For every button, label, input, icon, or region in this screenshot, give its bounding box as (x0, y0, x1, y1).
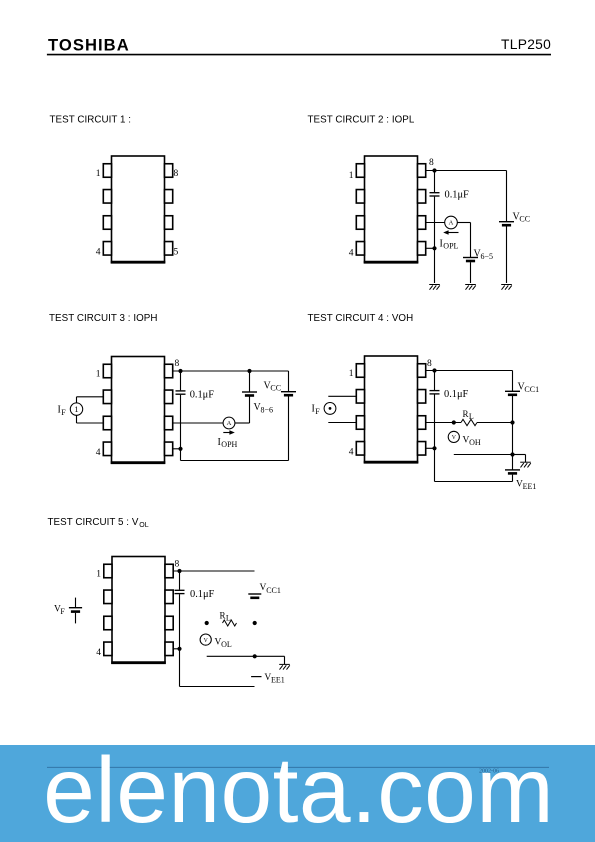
svg-text:EE1: EE1 (271, 675, 285, 684)
svg-text:5: 5 (174, 247, 179, 257)
svg-text:0.1μF: 0.1μF (190, 389, 215, 400)
svg-text:1: 1 (349, 369, 354, 379)
svg-text:0.1μF: 0.1μF (444, 389, 469, 400)
svg-text:L: L (469, 412, 474, 421)
svg-text:F: F (61, 408, 66, 417)
svg-text:OPH: OPH (221, 440, 237, 449)
svg-text:OH: OH (469, 438, 481, 447)
svg-text:8: 8 (427, 359, 432, 369)
svg-text:4: 4 (349, 447, 354, 457)
svg-text:4: 4 (96, 648, 101, 658)
svg-text:4: 4 (96, 448, 101, 458)
svg-text:OPL: OPL (443, 242, 458, 251)
svg-text:1: 1 (96, 169, 101, 179)
svg-text:CC1: CC1 (266, 586, 281, 595)
svg-text:R: R (220, 610, 226, 620)
svg-text:TEST CIRCUIT 4 : VOH: TEST CIRCUIT 4 : VOH (308, 313, 414, 324)
svg-text:8: 8 (175, 359, 180, 369)
svg-text:4: 4 (96, 247, 101, 257)
svg-text:OL: OL (221, 640, 232, 649)
svg-text:TEST CIRCUIT 3 : IOPH: TEST CIRCUIT 3 : IOPH (49, 313, 157, 324)
svg-text:CC: CC (519, 215, 530, 224)
svg-text:TEST CIRCUIT 5 : V: TEST CIRCUIT 5 : V (48, 517, 139, 528)
svg-text:1: 1 (349, 171, 354, 181)
svg-text:TOSHIBA: TOSHIBA (48, 36, 130, 55)
svg-text:CC: CC (270, 384, 281, 393)
svg-text:1: 1 (74, 404, 78, 414)
svg-text:4: 4 (349, 249, 354, 259)
svg-text:0.1μF: 0.1μF (445, 190, 470, 201)
svg-text:8: 8 (429, 158, 434, 168)
svg-text:1: 1 (96, 570, 101, 580)
svg-text:8: 8 (174, 169, 179, 179)
svg-text:V: V (204, 638, 209, 644)
svg-text:V: V (452, 435, 457, 441)
svg-text:TLP250: TLP250 (501, 37, 551, 52)
svg-text:A: A (449, 220, 454, 227)
svg-text:TEST CIRCUIT 1 :: TEST CIRCUIT 1 : (50, 115, 132, 126)
svg-text:TEST CIRCUIT 2 : IOPL: TEST CIRCUIT 2 : IOPL (308, 115, 415, 126)
svg-text:A: A (227, 420, 232, 427)
svg-text:1: 1 (96, 370, 101, 380)
svg-text:OL: OL (139, 522, 148, 529)
svg-text:L: L (226, 613, 231, 622)
svg-text:0.1μF: 0.1μF (190, 589, 215, 600)
svg-text:8: 8 (175, 560, 180, 570)
svg-text:6−5: 6−5 (481, 252, 494, 261)
svg-text:EE1: EE1 (523, 482, 537, 491)
svg-text:R: R (463, 409, 469, 419)
svg-text:F: F (315, 407, 320, 416)
svg-text:elenota.com: elenota.com (43, 738, 554, 842)
svg-text:F: F (60, 607, 65, 616)
svg-text:CC1: CC1 (524, 385, 539, 394)
svg-text:8−6: 8−6 (261, 406, 274, 415)
